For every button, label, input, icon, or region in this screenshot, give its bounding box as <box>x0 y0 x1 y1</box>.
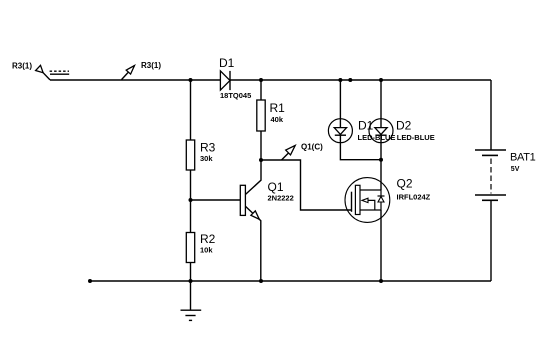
svg-text:Q1: Q1 <box>268 180 284 194</box>
svg-text:LED-BLUE: LED-BLUE <box>358 133 396 142</box>
svg-text:Q2: Q2 <box>397 177 413 191</box>
svg-text:D1: D1 <box>358 119 374 133</box>
svg-text:10k: 10k <box>200 246 213 255</box>
svg-text:BAT1: BAT1 <box>510 152 536 164</box>
svg-text:40k: 40k <box>271 115 284 124</box>
svg-text:D1: D1 <box>219 56 235 70</box>
svg-text:R2: R2 <box>200 232 216 246</box>
svg-text:LED-BLUE: LED-BLUE <box>397 133 435 142</box>
svg-text:2N2222: 2N2222 <box>268 194 294 203</box>
svg-text:R3: R3 <box>200 141 216 155</box>
svg-text:R1: R1 <box>270 101 286 115</box>
svg-text:D2: D2 <box>396 119 412 133</box>
svg-text:R3(1): R3(1) <box>141 61 161 70</box>
svg-text:R3(1): R3(1) <box>12 62 32 71</box>
svg-text:5V: 5V <box>511 166 520 173</box>
svg-text:18TQ045: 18TQ045 <box>220 91 251 100</box>
svg-text:30k: 30k <box>200 154 213 163</box>
svg-text:Q1(C): Q1(C) <box>301 143 323 152</box>
svg-text:IRFL024Z: IRFL024Z <box>397 193 431 202</box>
